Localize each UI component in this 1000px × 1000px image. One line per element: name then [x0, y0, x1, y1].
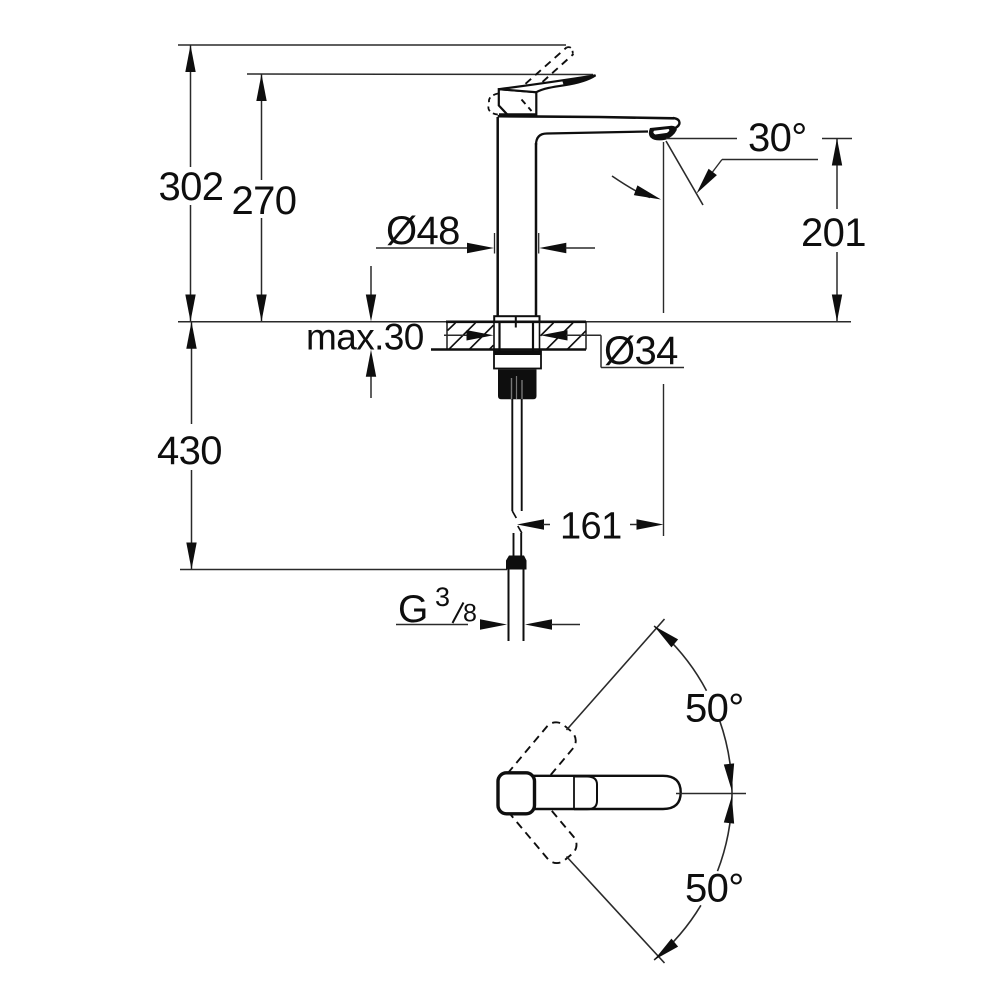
dimension 201 [822, 138, 852, 140]
faucet lever (solid, closed position) [499, 75, 596, 92]
dimension line 302 top horizontal [178, 44, 566, 46]
dashed handle outline fragments near body [489, 94, 498, 104]
vertical dimension 270 [261, 74, 263, 180]
hose end fitting [506, 556, 527, 570]
extension line from spout outlet [663, 142, 665, 313]
spout aerator outlet [649, 126, 677, 141]
svg-text:max.30: max.30 [306, 317, 424, 358]
shank through counter [498, 322, 500, 351]
faucet column left edge [496, 117, 499, 317]
counter top line [178, 321, 851, 323]
svg-text:8: 8 [463, 600, 477, 628]
base plate [494, 316, 539, 321]
bottom reference line [180, 569, 507, 571]
svg-text:30°: 30° [748, 116, 807, 160]
handle plan view: body cap [498, 773, 535, 814]
svg-text:430: 430 [157, 429, 222, 473]
centerline tick [515, 317, 517, 328]
plan centerline [676, 793, 746, 795]
supply hose [511, 399, 513, 511]
svg-text:201: 201 [801, 211, 866, 255]
handle base thick bar [499, 113, 537, 117]
converging arrows at centerline [724, 763, 737, 791]
washer [494, 352, 541, 369]
O34 leader and arrows [444, 334, 470, 336]
swivel arc [654, 626, 706, 691]
hose break symbol [512, 511, 522, 533]
dimension line 270 horizontal [247, 73, 593, 76]
G3/8 dimension arrows [396, 624, 468, 626]
spout inner corner [536, 134, 547, 146]
vertical dimension 302 [190, 45, 192, 167]
30 deg leader line [666, 138, 737, 140]
handle plan view: lever [510, 776, 681, 809]
svg-text:50°: 50° [685, 867, 744, 911]
spout end cap [671, 118, 679, 129]
max.30 arrows [370, 266, 372, 296]
handle plan view: mid section [574, 777, 597, 810]
stream direction line 30 deg [666, 141, 703, 205]
faucet handle body (solid) [499, 89, 537, 115]
svg-text:161: 161 [560, 506, 622, 548]
faucet handle open position (dashed lever) [506, 48, 567, 102]
svg-text:50°: 50° [685, 687, 744, 731]
svg-text:Ø34: Ø34 [604, 329, 678, 373]
svg-text:270: 270 [232, 179, 297, 223]
dimension 430 [191, 322, 193, 424]
handle plan view: dashed rotated positions [500, 717, 581, 804]
spout top surface [498, 116, 674, 118]
svg-text:Ø48: Ø48 [386, 209, 460, 253]
faucet column right edge [535, 143, 538, 317]
spout underside [547, 132, 648, 134]
mounting nut [498, 370, 537, 400]
flow direction curved arrow [612, 176, 650, 198]
pipe below reference line [508, 570, 510, 642]
counter bottom line [431, 348, 586, 350]
50 deg rays [567, 619, 665, 730]
dimension 161 [663, 384, 665, 536]
svg-text:3: 3 [435, 582, 450, 612]
counter section edges [446, 322, 448, 350]
svg-text:302: 302 [159, 165, 224, 209]
counter hatching left [448, 323, 456, 331]
